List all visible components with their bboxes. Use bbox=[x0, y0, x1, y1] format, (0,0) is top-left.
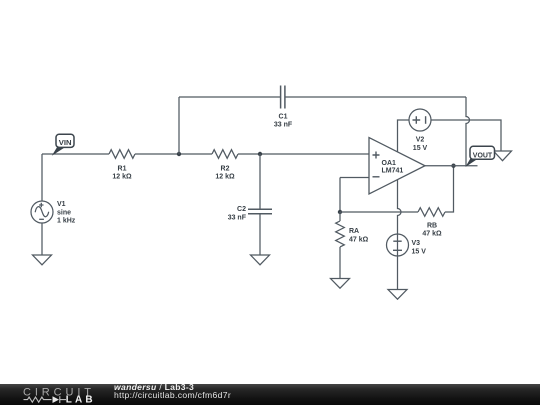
ground (V1) bbox=[33, 255, 52, 265]
svg-text:33 nF: 33 nF bbox=[274, 122, 293, 129]
svg-text:47 kΩ: 47 kΩ bbox=[422, 231, 442, 238]
wire: R2 to op-amp +input bbox=[238, 153, 369, 155]
node A (R1/R2/C1 junction) bbox=[177, 152, 181, 156]
svg-text:LAB: LAB bbox=[66, 395, 96, 405]
svg-text:OA1: OA1 bbox=[382, 160, 397, 167]
source V3 bbox=[387, 234, 427, 256]
wire: V3 to ground bbox=[397, 256, 399, 290]
capacitor C1 bbox=[274, 86, 293, 129]
svg-text:12 kΩ: 12 kΩ bbox=[215, 174, 235, 181]
svg-text:C2: C2 bbox=[237, 206, 246, 213]
svg-text:V2: V2 bbox=[416, 137, 425, 144]
wire: op-amp V- pin down to V3 (with hop over RB wire) bbox=[398, 180, 402, 234]
flag VOUT bbox=[465, 146, 494, 167]
resistor RA bbox=[336, 212, 369, 247]
wire: node C to RB bbox=[340, 211, 418, 213]
svg-text:12 kΩ: 12 kΩ bbox=[112, 174, 132, 181]
wire: node A up to feedback rail bbox=[178, 97, 180, 154]
wire: feedback rail left of C1 bbox=[179, 96, 280, 98]
wire: node B down to C2 bbox=[259, 154, 261, 209]
resistor RB bbox=[418, 208, 445, 238]
svg-text:RB: RB bbox=[427, 223, 437, 230]
wire: feedback down to output (with hop over V2 wire) bbox=[466, 97, 470, 166]
flag VIN bbox=[52, 134, 74, 156]
svg-text:15 V: 15 V bbox=[412, 248, 427, 255]
svg-text:R1: R1 bbox=[118, 166, 127, 173]
wire: V2 - to ground bbox=[431, 120, 501, 151]
wire: V1 to ground bbox=[41, 223, 43, 255]
op-amp OA1 bbox=[369, 138, 425, 195]
svg-text:R2: R2 bbox=[221, 166, 230, 173]
svg-text:1 kHz: 1 kHz bbox=[57, 218, 76, 225]
svg-text:VIN: VIN bbox=[59, 140, 72, 147]
wire: -input left bbox=[340, 177, 369, 179]
svg-text:V1: V1 bbox=[57, 201, 66, 208]
node C (RA / RB / -in junction) bbox=[338, 210, 342, 214]
wire: VIN node to R1 bbox=[42, 153, 109, 155]
node B (R2/C2/+in junction) bbox=[258, 152, 262, 156]
wire: -input down to node C bbox=[339, 178, 341, 213]
ground (RA) bbox=[331, 279, 350, 289]
svg-text:LM741: LM741 bbox=[382, 168, 404, 175]
source V2 bbox=[409, 109, 431, 152]
wire: op-amp output bbox=[425, 165, 478, 167]
svg-text:47 kΩ: 47 kΩ bbox=[349, 237, 369, 244]
wire: RB up to output bbox=[445, 166, 454, 212]
svg-text:C1: C1 bbox=[279, 114, 288, 121]
wire: feedback rail right of C1 bbox=[285, 96, 466, 98]
resistor R2 bbox=[212, 150, 238, 181]
ground (V2) bbox=[494, 151, 512, 161]
resistor R1 bbox=[109, 150, 135, 181]
svg-text:sine: sine bbox=[57, 209, 71, 216]
svg-text:V3: V3 bbox=[412, 240, 421, 247]
wire: V2 + to op-amp V+ pin bbox=[398, 120, 410, 152]
node D (output junction) bbox=[451, 164, 455, 168]
ground (C2) bbox=[251, 255, 270, 265]
wire: RA to ground bbox=[339, 247, 341, 279]
wire: R1 to R2 bbox=[135, 153, 212, 155]
svg-text:VOUT: VOUT bbox=[473, 153, 493, 160]
capacitor C2 bbox=[228, 206, 272, 222]
wire: V1 top lead bbox=[41, 154, 43, 201]
wire: C2 to ground bbox=[259, 214, 261, 255]
svg-text:RA: RA bbox=[349, 228, 359, 235]
svg-text:15 V: 15 V bbox=[413, 145, 428, 152]
svg-text:33 nF: 33 nF bbox=[228, 215, 247, 222]
logo resistor squiggle and diode bbox=[24, 396, 67, 403]
source V1 (sine) bbox=[31, 201, 76, 225]
ground (V3) bbox=[388, 290, 407, 300]
footer bar bbox=[0, 382, 540, 405]
svg-text:http://circuitlab.com/cfm6d7r: http://circuitlab.com/cfm6d7r bbox=[114, 390, 231, 400]
